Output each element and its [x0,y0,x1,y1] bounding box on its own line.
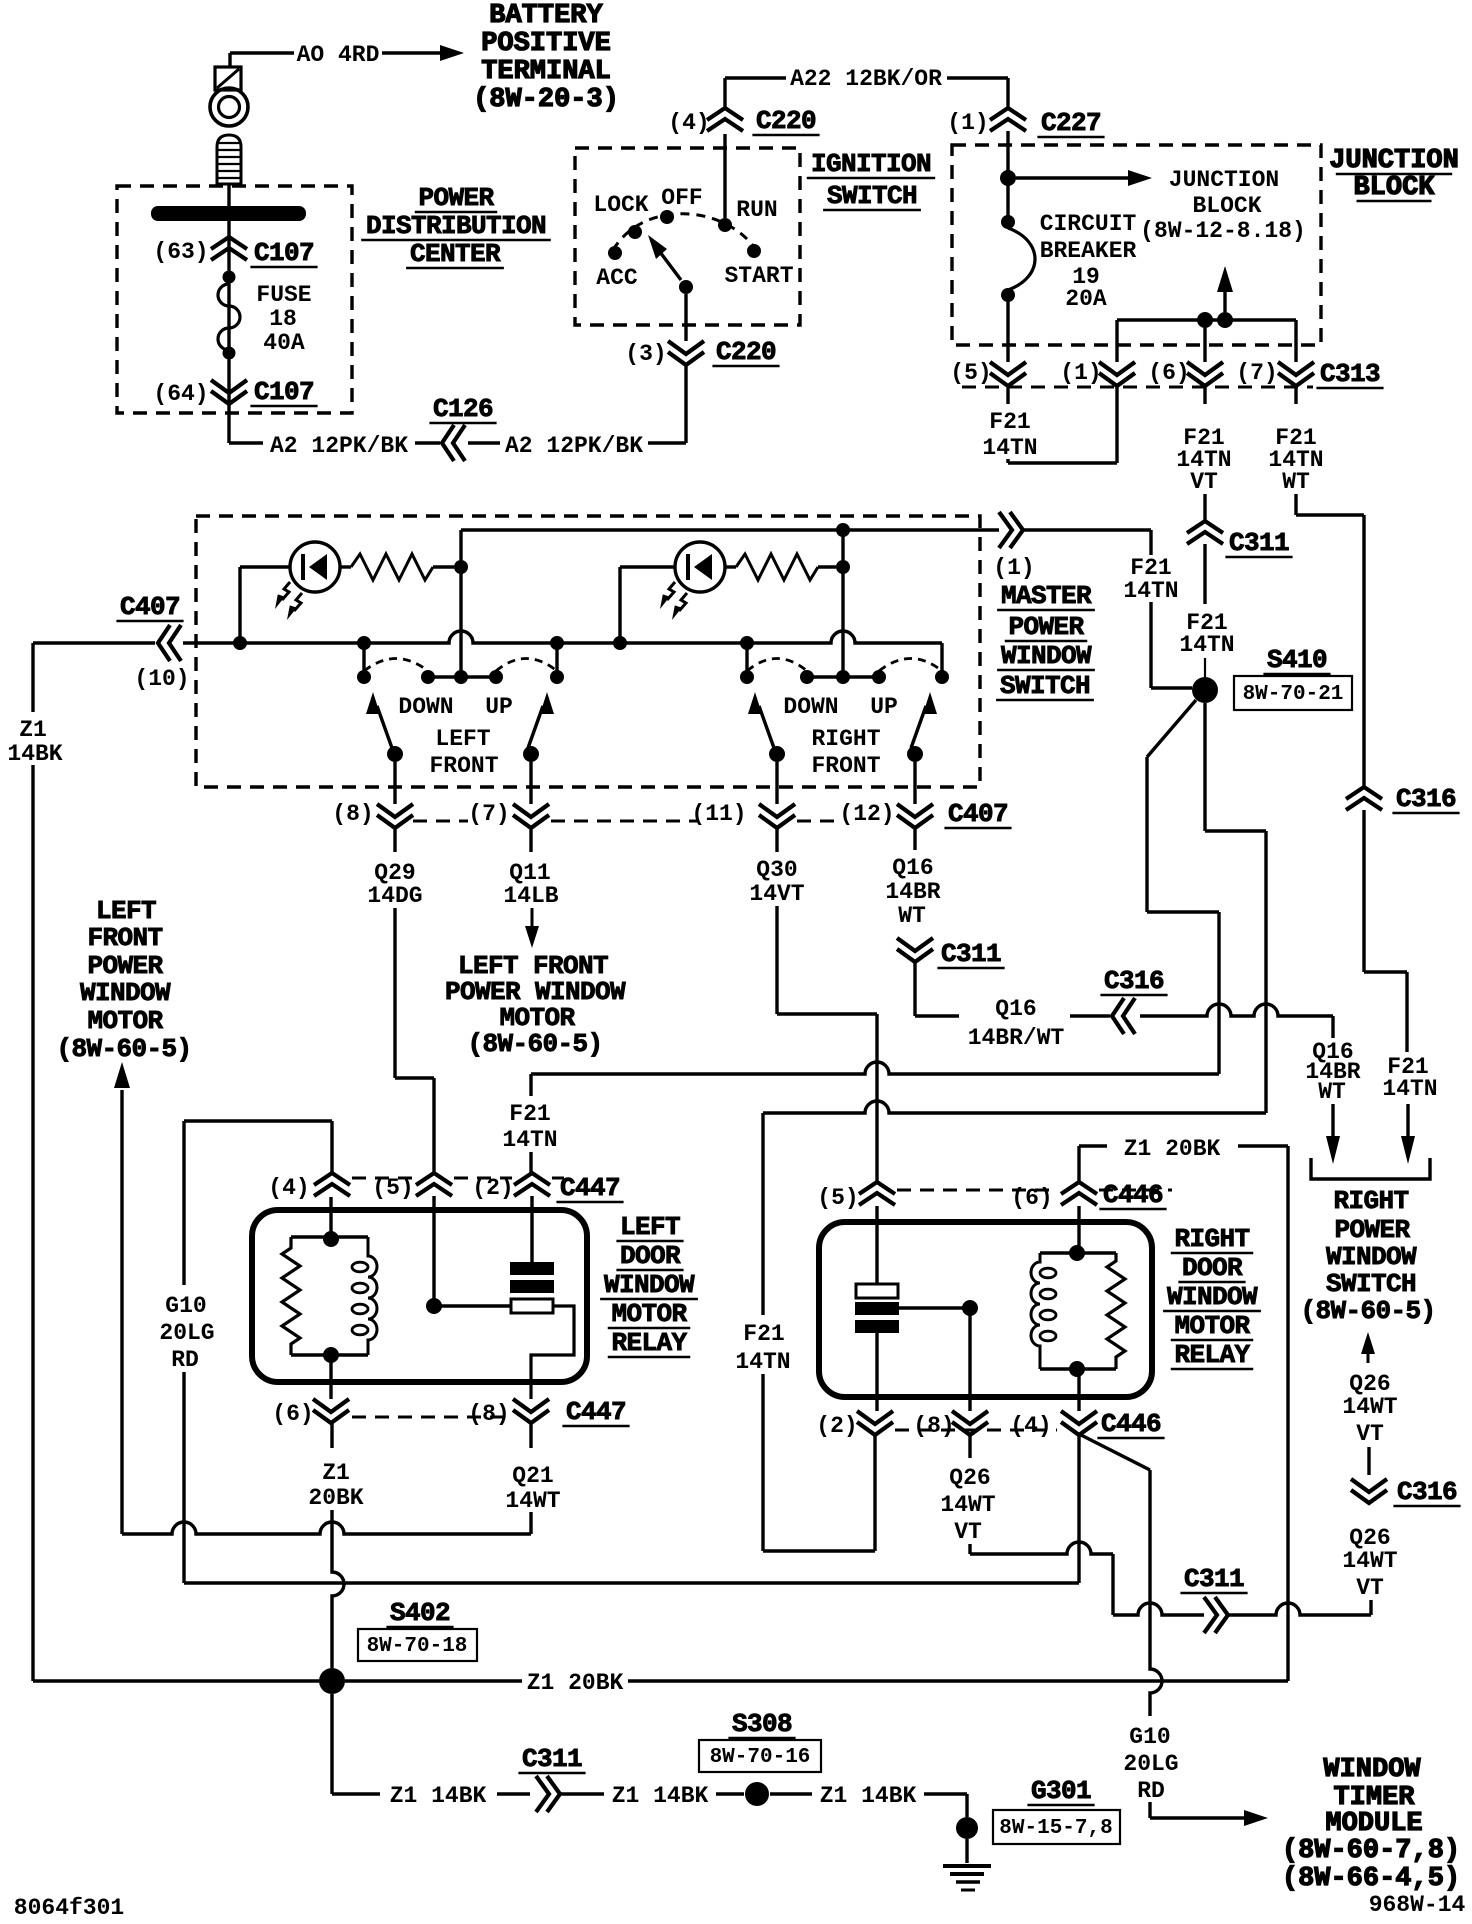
svg-text:Z1 14BK: Z1 14BK [612,1783,709,1809]
svg-text:FUSE: FUSE [256,282,311,308]
svg-text:LEFT: LEFT [96,896,156,926]
svg-text:(6): (6) [272,1401,313,1427]
svg-text:Z1: Z1 [322,1460,350,1486]
svg-text:8W-70-16: 8W-70-16 [710,1746,811,1769]
svg-text:8W-70-18: 8W-70-18 [367,1635,468,1658]
svg-text:WINDOW: WINDOW [1326,1242,1417,1272]
svg-text:C126: C126 [433,394,493,424]
svg-text:CIRCUIT: CIRCUIT [1040,211,1137,237]
svg-text:(8W-60-5): (8W-60-5) [1300,1296,1435,1326]
svg-text:(63): (63) [153,239,208,265]
svg-text:WT: WT [1318,1079,1346,1105]
svg-text:Q26: Q26 [949,1465,990,1491]
svg-text:(8W-60-7,8): (8W-60-7,8) [1282,1836,1460,1866]
svg-text:LEFT: LEFT [620,1212,680,1242]
svg-text:(10): (10) [134,666,189,692]
svg-text:20BK: 20BK [308,1485,363,1511]
svg-text:20A: 20A [1065,286,1107,312]
svg-text:IGNITION: IGNITION [811,149,931,179]
svg-text:(8W-60-5): (8W-60-5) [467,1029,602,1059]
svg-text:968W-14: 968W-14 [1369,1892,1466,1918]
svg-text:BLOCK: BLOCK [1192,193,1261,219]
svg-text:RELAY: RELAY [611,1328,687,1358]
svg-text:C220: C220 [716,337,776,367]
svg-text:(8): (8) [913,1413,954,1439]
svg-text:WINDOW: WINDOW [1167,1282,1258,1312]
svg-text:RD: RD [1137,1778,1165,1804]
svg-text:OFF: OFF [661,185,702,211]
svg-text:RIGHT: RIGHT [1174,1224,1249,1254]
svg-text:Q30: Q30 [756,857,797,883]
svg-text:MASTER: MASTER [1001,581,1092,611]
svg-text:A22 12BK/OR: A22 12BK/OR [790,66,942,92]
svg-text:C220: C220 [756,106,816,136]
svg-text:POWER: POWER [1008,612,1084,642]
svg-text:TERMINAL: TERMINAL [481,57,611,87]
svg-text:(1): (1) [1060,360,1101,386]
svg-text:S410: S410 [1267,645,1327,675]
svg-text:14TN: 14TN [1123,578,1178,604]
svg-text:14TN: 14TN [982,435,1037,461]
svg-text:RELAY: RELAY [1174,1340,1250,1370]
svg-text:POWER: POWER [87,951,163,981]
svg-text:AO 4RD: AO 4RD [297,42,380,68]
svg-text:MOTOR: MOTOR [87,1006,163,1036]
svg-text:JUNCTION: JUNCTION [1329,146,1459,176]
svg-text:F21: F21 [989,409,1030,435]
svg-text:WT: WT [1282,469,1310,495]
svg-text:F21: F21 [743,1321,784,1347]
svg-text:C311: C311 [941,939,1001,969]
svg-text:DOOR: DOOR [620,1241,681,1271]
svg-text:C311: C311 [1229,528,1289,558]
svg-text:BATTERY: BATTERY [489,1,603,31]
svg-text:14WT: 14WT [1342,1548,1397,1574]
svg-text:Z1 14BK: Z1 14BK [390,1783,487,1809]
svg-text:C407: C407 [120,592,180,622]
svg-text:C313: C313 [1320,359,1380,389]
svg-text:SWITCH: SWITCH [1000,671,1090,701]
svg-text:SWITCH: SWITCH [827,181,917,211]
svg-text:14TN: 14TN [1382,1076,1437,1102]
svg-text:(8W-60-5): (8W-60-5) [56,1034,191,1064]
svg-text:(5): (5) [372,1175,413,1201]
svg-text:MOTOR: MOTOR [1174,1311,1250,1341]
svg-text:(1): (1) [947,110,988,136]
svg-text:14LB: 14LB [503,883,558,909]
svg-text:LEFT: LEFT [435,726,490,752]
svg-text:14WT: 14WT [1342,1394,1397,1420]
svg-text:(1): (1) [993,555,1034,581]
svg-text:8W-15-7,8: 8W-15-7,8 [999,1817,1112,1840]
svg-text:C446: C446 [1103,1180,1163,1210]
svg-text:(8): (8) [468,1401,509,1427]
svg-text:14VT: 14VT [749,881,804,907]
svg-text:8W-70-21: 8W-70-21 [1243,683,1344,706]
svg-text:VT: VT [1356,1421,1384,1447]
svg-text:F21: F21 [509,1101,550,1127]
svg-text:CENTER: CENTER [410,239,501,269]
svg-text:G301: G301 [1031,1776,1091,1806]
svg-text:POWER: POWER [418,183,494,213]
svg-text:UP: UP [870,694,898,720]
svg-text:C447: C447 [560,1173,620,1203]
svg-text:14BR: 14BR [885,879,940,905]
svg-text:WINDOW: WINDOW [80,978,171,1008]
svg-text:(6): (6) [1011,1185,1052,1211]
svg-text:LOCK: LOCK [593,192,648,218]
svg-text:MOTOR: MOTOR [611,1299,687,1329]
svg-text:A2 12PK/BK: A2 12PK/BK [505,433,643,459]
svg-text:RD: RD [171,1347,199,1373]
svg-text:WINDOW: WINDOW [604,1270,695,1300]
svg-text:START: START [724,263,793,289]
svg-text:DOWN: DOWN [398,694,453,720]
svg-text:RUN: RUN [736,197,777,223]
svg-text:20LG: 20LG [159,1320,214,1346]
svg-text:C316: C316 [1396,784,1456,814]
svg-text:14TN: 14TN [1179,632,1234,658]
svg-text:DISTRIBUTION: DISTRIBUTION [366,211,546,241]
svg-text:14TN: 14TN [502,1127,557,1153]
svg-text:VT: VT [954,1519,982,1545]
svg-text:14BR/WT: 14BR/WT [968,1025,1065,1051]
svg-text:A2 12PK/BK: A2 12PK/BK [270,433,408,459]
svg-text:C107: C107 [254,377,314,407]
svg-text:(4): (4) [1010,1413,1051,1439]
svg-text:C446: C446 [1101,1409,1161,1439]
svg-text:C316: C316 [1104,966,1164,996]
svg-text:C311: C311 [522,1744,582,1774]
svg-text:Z1: Z1 [19,717,47,743]
svg-text:14TN: 14TN [735,1349,790,1375]
svg-text:C227: C227 [1041,108,1101,138]
svg-text:14DG: 14DG [367,883,422,909]
svg-text:Z1 20BK: Z1 20BK [1124,1136,1221,1162]
svg-text:SWITCH: SWITCH [1326,1269,1416,1299]
svg-text:Q16: Q16 [892,855,933,881]
svg-text:FRONT: FRONT [87,923,162,953]
svg-text:(64): (64) [153,381,208,407]
svg-text:(2): (2) [816,1413,857,1439]
svg-text:C107: C107 [254,238,314,268]
svg-text:BREAKER: BREAKER [1040,238,1137,264]
svg-text:(4): (4) [668,110,709,136]
svg-text:(11): (11) [691,801,746,827]
svg-text:(12): (12) [839,801,894,827]
svg-text:(8W-12-8.18): (8W-12-8.18) [1140,218,1306,244]
svg-text:(6): (6) [1148,360,1189,386]
svg-text:(7): (7) [1236,360,1277,386]
svg-text:G10: G10 [165,1293,206,1319]
svg-text:14BK: 14BK [7,741,62,767]
svg-text:C316: C316 [1397,1477,1457,1507]
svg-text:Z1 20BK: Z1 20BK [527,1670,624,1696]
svg-text:RIGHT: RIGHT [811,726,880,752]
svg-text:18: 18 [269,306,297,332]
svg-text:WINDOW: WINDOW [1323,1755,1421,1785]
svg-text:(5): (5) [950,360,991,386]
svg-text:40A: 40A [263,330,305,356]
svg-text:S308: S308 [732,1709,792,1739]
svg-text:(8W-20-3): (8W-20-3) [473,85,619,115]
svg-text:ACC: ACC [596,265,638,291]
svg-text:20LG: 20LG [1123,1751,1178,1777]
svg-text:Q16: Q16 [995,996,1036,1022]
svg-text:FRONT: FRONT [811,753,880,779]
svg-text:DOWN: DOWN [783,694,838,720]
svg-text:VT: VT [1190,469,1218,495]
svg-text:14WT: 14WT [505,1488,560,1514]
svg-text:C447: C447 [566,1397,626,1427]
svg-text:MODULE: MODULE [1325,1809,1422,1839]
svg-text:POWER: POWER [1334,1215,1410,1245]
svg-text:FRONT: FRONT [429,753,498,779]
svg-text:(4): (4) [268,1175,309,1201]
svg-text:C407: C407 [948,799,1008,829]
svg-text:VT: VT [1356,1575,1384,1601]
svg-text:UP: UP [485,694,513,720]
svg-text:14WT: 14WT [940,1492,995,1518]
svg-text:(5): (5) [817,1185,858,1211]
svg-text:RIGHT: RIGHT [1333,1186,1408,1216]
svg-text:Z1 14BK: Z1 14BK [820,1783,917,1809]
svg-text:(2): (2) [472,1175,513,1201]
svg-text:WINDOW: WINDOW [1001,641,1092,671]
svg-text:8064f301: 8064f301 [14,1895,124,1921]
svg-text:DOOR: DOOR [1182,1253,1243,1283]
svg-text:(8): (8) [332,801,373,827]
svg-text:WT: WT [898,903,926,929]
svg-text:POSITIVE: POSITIVE [481,29,611,59]
svg-text:G10: G10 [1129,1724,1170,1750]
svg-text:S402: S402 [390,1598,450,1628]
svg-text:C311: C311 [1184,1564,1244,1594]
svg-text:(7): (7) [468,801,509,827]
svg-text:JUNCTION: JUNCTION [1169,167,1279,193]
svg-text:Q21: Q21 [512,1463,553,1489]
svg-text:BLOCK: BLOCK [1353,173,1435,203]
svg-text:(8W-66-4,5): (8W-66-4,5) [1282,1864,1460,1894]
svg-text:(3): (3) [625,341,666,367]
